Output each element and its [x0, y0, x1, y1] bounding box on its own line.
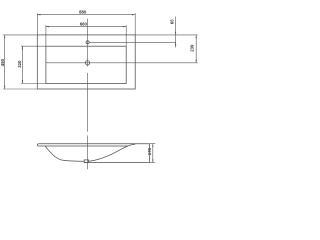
svg-text:65: 65: [170, 19, 175, 24]
svg-text:450: 450: [0, 58, 5, 66]
svg-text:880: 880: [79, 9, 87, 14]
svg-text:320: 320: [17, 60, 22, 68]
svg-text:660: 660: [80, 21, 88, 26]
svg-text:239: 239: [189, 44, 194, 52]
